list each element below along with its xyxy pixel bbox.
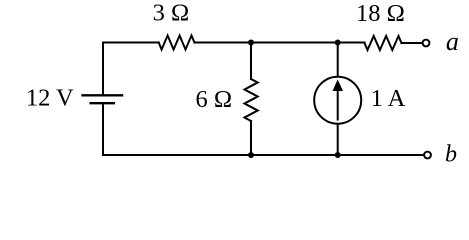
svg-text:18 Ω: 18 Ω	[356, 0, 405, 27]
svg-text:3 Ω: 3 Ω	[153, 0, 190, 27]
svg-text:a: a	[446, 27, 459, 56]
svg-text:b: b	[445, 142, 457, 168]
svg-text:1 A: 1 A	[371, 85, 406, 112]
svg-text:6 Ω: 6 Ω	[196, 86, 233, 113]
svg-text:12 V: 12 V	[26, 85, 74, 112]
